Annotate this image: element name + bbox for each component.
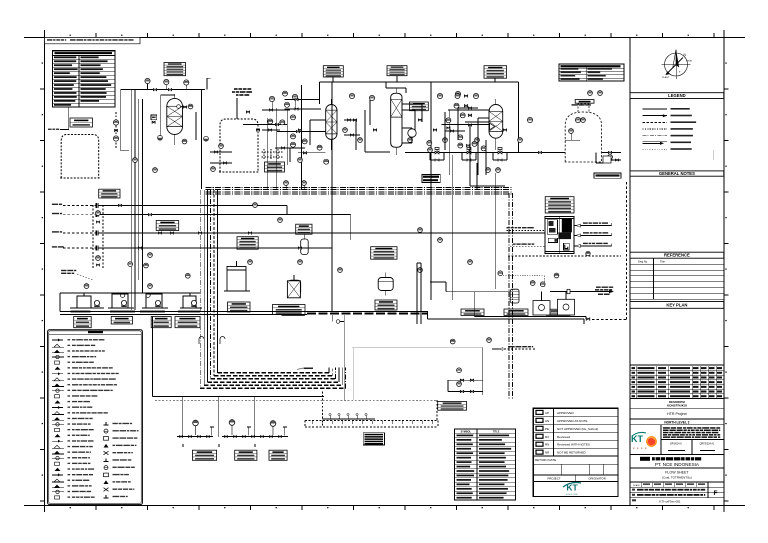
vertical pipe at 495 bbox=[494, 173, 496, 289]
instrument bubble bbox=[481, 146, 486, 151]
drain valve bbox=[225, 436, 228, 438]
future tank T-101 (dashed) bbox=[60, 135, 99, 179]
pump label P-203A/B bbox=[269, 450, 287, 460]
long vertical pipe (center) bbox=[331, 82, 333, 312]
svg-text:KEY PLAN: KEY PLAN bbox=[666, 302, 687, 307]
instrument bubble rack 1 bbox=[284, 181, 289, 186]
pump group A bbox=[70, 296, 104, 308]
instrument bubble bbox=[148, 253, 153, 258]
instrument bubble loop corner b bbox=[496, 168, 501, 173]
instrument bubble tank T-201 bbox=[219, 144, 224, 149]
piping ladder between V-201 and column bbox=[344, 100, 390, 152]
instrument bubble bbox=[280, 120, 285, 125]
equipment label box (left) bbox=[237, 237, 258, 250]
dotted signal with bubble bbox=[503, 276, 545, 288]
manifold valve 1 bbox=[460, 379, 463, 381]
svg-text:REFERENCE: REFERENCE bbox=[664, 253, 690, 258]
cluster valve bbox=[275, 123, 278, 125]
svg-text:APPROVED: APPROVED bbox=[557, 411, 575, 415]
svg-text:NORTH LEVEL 3: NORTH LEVEL 3 bbox=[664, 420, 689, 424]
bubbles in pump groups bbox=[120, 293, 150, 297]
svg-text:TRUE: TRUE bbox=[686, 61, 692, 63]
instrument bubble bbox=[278, 218, 283, 223]
svg-text:AN: AN bbox=[545, 419, 549, 423]
instrument bubble bbox=[164, 79, 169, 84]
svg-text:SCALE: SCALE bbox=[633, 484, 640, 487]
cluster valve C bbox=[447, 127, 450, 129]
heat exchanger E-203 bbox=[378, 273, 393, 296]
drain valve bbox=[207, 436, 210, 438]
drain valve bbox=[234, 436, 237, 438]
letdown station line bbox=[405, 152, 565, 154]
lower header line bundle bbox=[60, 312, 428, 324]
svg-text:RN: RN bbox=[545, 443, 549, 447]
instrument bubble bypass 1 bbox=[96, 211, 101, 216]
interlock note box bbox=[545, 197, 574, 213]
ladder valve 1 bbox=[348, 119, 351, 121]
instrument bubble bbox=[253, 203, 258, 208]
equipment label box (tank) bbox=[99, 189, 120, 198]
drain valve bbox=[279, 436, 282, 438]
dashed package outline (bottom middle) bbox=[305, 421, 438, 428]
GENERAL NOTES title bar bbox=[630, 171, 724, 176]
bottom pump group 3 bbox=[258, 426, 288, 437]
legend line samples bbox=[643, 108, 697, 150]
svg-text:F: F bbox=[714, 490, 718, 497]
utility rack bundle turns down bbox=[509, 193, 513, 400]
wire from table to note bbox=[68, 107, 70, 130]
instrument bubble (bottom manifold 2) bbox=[229, 420, 235, 435]
pump label P-103A/B bbox=[151, 317, 171, 328]
pump label P-102A/B bbox=[111, 317, 132, 325]
pump P-102 bbox=[121, 300, 126, 306]
drop valve 2 bbox=[269, 129, 272, 131]
feed line valve bbox=[198, 232, 201, 234]
dark bubble V-101 bottom bbox=[158, 135, 163, 140]
left riser to bottom pumps bbox=[153, 317, 325, 397]
instrument bubble bbox=[145, 78, 150, 83]
pump P-104 bbox=[191, 300, 196, 306]
ground bars under pump row bbox=[71, 311, 200, 313]
reference table bbox=[630, 258, 724, 299]
pipe spec table (top right) bbox=[559, 64, 624, 81]
instrument bubble manifold 3 bbox=[450, 339, 455, 344]
line symbol table bbox=[455, 429, 516, 500]
svg-text:Reviewed: Reviewed bbox=[557, 435, 571, 439]
inline valve bbox=[468, 124, 471, 126]
instrument bubble bbox=[153, 168, 158, 173]
misc vertical drop lines region B bbox=[267, 85, 301, 190]
manifold valve 3 bbox=[460, 390, 463, 392]
instrument bubble V-101 outlet bbox=[182, 139, 187, 144]
cluster valve C bbox=[464, 95, 467, 97]
instrument bubble bbox=[527, 117, 532, 122]
pump label P-104A/B bbox=[175, 317, 200, 328]
instrument bubble bbox=[458, 135, 463, 140]
labels near mid height bbox=[595, 289, 599, 291]
pipe rack bundle corner (right then up) bbox=[200, 368, 345, 389]
instrument bubble bbox=[468, 260, 473, 265]
instrument bubble above pump A bbox=[84, 284, 89, 289]
dark bubble at drop line bbox=[204, 136, 209, 141]
instrument bubble bbox=[343, 128, 348, 133]
pump discharge header bbox=[474, 292, 586, 319]
pump block A (right) bbox=[533, 292, 550, 316]
feed line valve bbox=[298, 247, 301, 249]
REFERENCE title bar bbox=[630, 252, 724, 258]
equipment data table (top left) bbox=[53, 51, 116, 107]
note box (manifold) bbox=[438, 402, 467, 411]
panel signal leads bbox=[507, 222, 612, 247]
instrument bubble (bottom manifold 3) bbox=[270, 421, 276, 435]
region B horizontals bbox=[243, 100, 326, 153]
legend right column symbols and labels bbox=[104, 422, 139, 498]
drain valve bbox=[252, 436, 255, 438]
packed vessel V-401 bbox=[489, 104, 503, 138]
instrument bubble T-401 a bbox=[569, 129, 574, 134]
up-stub flag at header end bbox=[207, 78, 211, 89]
pipe class text block bbox=[232, 88, 252, 96]
right pump station bbox=[604, 159, 621, 161]
vertical dotted drop at 322 bbox=[322, 392, 324, 428]
gate valve on header bbox=[586, 318, 590, 320]
instrument bubble bbox=[283, 91, 288, 96]
inline valve bbox=[246, 111, 249, 113]
valve cluster left of tank T-201 bbox=[210, 152, 232, 163]
manifold valve 2 bbox=[470, 379, 473, 381]
equipment label box C-301 bbox=[387, 66, 407, 76]
equipment label box (mid-left) bbox=[156, 221, 179, 231]
drop valve 1 bbox=[270, 109, 273, 111]
condensate feed line 4 bbox=[52, 246, 332, 251]
instrument bubble bbox=[285, 102, 290, 107]
instrument bubble bypass 2 bbox=[96, 256, 101, 261]
V-201 piping bbox=[310, 99, 331, 150]
filter feed line bbox=[430, 282, 510, 292]
flow element box bbox=[151, 115, 157, 120]
line to tank T-201 top bbox=[236, 98, 238, 119]
instrument bubble loop corner a bbox=[486, 168, 491, 173]
feed line valve bbox=[148, 214, 151, 216]
C-301 piping bbox=[396, 88, 415, 155]
instrument bubble bbox=[460, 113, 465, 118]
instrument bubble L7 a bbox=[588, 91, 593, 96]
instrument bubble riser b bbox=[144, 263, 149, 268]
company row - PT NCE INDONESIA bbox=[630, 455, 724, 468]
instrument bubble bbox=[349, 93, 354, 98]
line label box on header bbox=[282, 309, 305, 315]
instrument bubble bbox=[408, 138, 413, 143]
feed line valve bbox=[118, 204, 121, 206]
svg-text:NOT APPROVED (Re_Submit): NOT APPROVED (Re_Submit) bbox=[557, 427, 598, 431]
drop valve 3 bbox=[282, 147, 285, 149]
instrument bubble bbox=[473, 93, 478, 98]
instrument bubble bbox=[427, 141, 432, 146]
instrument bubble bbox=[291, 115, 296, 120]
V-401 side valve bbox=[451, 130, 454, 132]
instrument bubble T-401 bbox=[581, 118, 586, 123]
bottom manifold drops bbox=[183, 397, 255, 448]
cluster valve bbox=[296, 130, 299, 132]
future tank T-401 (dashed, domed) bbox=[565, 104, 601, 162]
inline valve bbox=[418, 119, 421, 121]
packed vessel V-101 bbox=[167, 98, 183, 134]
instrument bubble L7 b bbox=[598, 91, 603, 96]
svg-text:KTI-xxF0xx-001: KTI-xxF0xx-001 bbox=[659, 500, 681, 504]
instrument bubble bbox=[455, 94, 460, 99]
drain hooks near rack bbox=[199, 337, 225, 345]
instrument bubble PV row 1 bbox=[443, 138, 448, 143]
bottom pump group 2 bbox=[222, 426, 258, 437]
bottom pump group 1 bbox=[177, 426, 214, 437]
instrument bubble bbox=[418, 268, 423, 273]
cartridge filter F-401 bbox=[510, 289, 519, 303]
ladder piping right of column bbox=[386, 82, 422, 122]
revision table bbox=[630, 366, 724, 399]
vertical pipe pair (center low) bbox=[417, 263, 421, 324]
top header strip with drawing number bbox=[45, 37, 141, 43]
title block - north level bar bbox=[630, 419, 724, 425]
tick valve row (mid bottom) bbox=[323, 413, 376, 419]
LEGEND title bar bbox=[630, 93, 724, 99]
small label box bbox=[575, 100, 594, 104]
instrument bubble bbox=[358, 138, 363, 143]
tank inlet valve 2 bbox=[224, 162, 227, 164]
label box (mid right 2) bbox=[504, 309, 528, 315]
cluster valve bbox=[295, 108, 298, 110]
instrument bubble bbox=[518, 138, 523, 143]
bypass valve 2 bbox=[97, 264, 100, 266]
instrument bubble bbox=[248, 260, 253, 265]
equipment label box E-101 bbox=[164, 63, 186, 76]
drain valve bbox=[243, 436, 246, 438]
inline valve bbox=[608, 151, 611, 153]
instrument bubble bbox=[291, 142, 296, 147]
svg-text:NOT BE RETURNED: NOT BE RETURNED bbox=[557, 451, 586, 455]
instrument bubble bbox=[458, 143, 463, 148]
ladder valve 2 bbox=[351, 134, 354, 136]
equipment label box E-203 bbox=[371, 247, 397, 260]
svg-text:KONSTRUKSI: KONSTRUKSI bbox=[667, 404, 687, 408]
svg-text:E N G I N E: E N G I N E bbox=[566, 494, 578, 496]
svg-text:TITLE: TITLE bbox=[493, 430, 500, 433]
cluster valve C bbox=[466, 144, 469, 146]
control valve PV-3 bbox=[498, 148, 502, 154]
instrument bubble group D bbox=[185, 273, 190, 278]
instrument bubble PI bbox=[498, 271, 503, 276]
instrument bubble bbox=[298, 158, 303, 163]
symbol legend box (bottom left) bbox=[48, 330, 143, 505]
pump P-101 bbox=[94, 300, 99, 306]
instrument bubble loop b bbox=[113, 136, 118, 141]
label box (mid right) bbox=[461, 309, 484, 315]
pump group D bbox=[180, 296, 202, 308]
V-101 piping bbox=[161, 94, 196, 145]
inline valve bbox=[298, 129, 301, 131]
svg-text:PE: PE bbox=[545, 427, 549, 431]
instrument bubble manifold 2 bbox=[457, 382, 462, 387]
svg-text:Title: Title bbox=[660, 260, 665, 264]
instrument bubble bbox=[575, 117, 580, 122]
instrument bubble bbox=[369, 95, 374, 100]
instrument bubble bbox=[317, 145, 322, 150]
steam drum note text bbox=[61, 270, 93, 280]
label box stems to header bbox=[333, 76, 495, 82]
pump group C bbox=[142, 294, 168, 308]
drawing title row - FLOW SHEET bbox=[630, 468, 724, 482]
instrument bubble bbox=[418, 228, 423, 233]
drain valve bbox=[198, 436, 201, 438]
future tank T-201 (dashed) bbox=[219, 119, 259, 172]
feed valve a bbox=[159, 232, 162, 234]
instrument bubble V-101 bbox=[188, 104, 193, 109]
instrument bubble bbox=[586, 251, 590, 255]
svg-text:PT. NCE INDONESIA: PT. NCE INDONESIA bbox=[655, 462, 700, 467]
seal drain note text bbox=[572, 104, 578, 105]
instrument bubble bbox=[291, 134, 296, 139]
feed valve b bbox=[171, 232, 174, 234]
KEY PLAN title bar bbox=[630, 302, 724, 309]
instrument bubble (bottom manifold 1) bbox=[193, 420, 199, 435]
svg-text:Reviewed WITH NOTES: Reviewed WITH NOTES bbox=[557, 443, 590, 447]
dark schedule label box bbox=[422, 174, 440, 182]
drain valve bbox=[180, 436, 183, 438]
long vertical at 431 bbox=[430, 82, 432, 300]
instrument bubble flare 3 bbox=[554, 273, 559, 278]
instrument bubble tank T-201 b bbox=[211, 167, 216, 172]
inline valve bbox=[168, 89, 171, 91]
feed line valve bbox=[248, 232, 251, 234]
equipment label (deaerator) bbox=[228, 302, 251, 312]
instrument bubble bbox=[428, 148, 433, 153]
dashed bypass loop (left) bbox=[93, 205, 103, 268]
line continues right with valve bbox=[428, 318, 627, 324]
drain valve bbox=[189, 436, 192, 438]
packed vessel V-201 bbox=[326, 105, 337, 140]
title block bottom grid bbox=[630, 482, 724, 506]
svg-text:EPS/024 A: EPS/024 A bbox=[670, 443, 682, 446]
dashed interlock line (right) bbox=[508, 255, 621, 257]
label under exchanger bbox=[375, 300, 397, 310]
flare line with arrow bbox=[550, 287, 614, 294]
line number tag NW bbox=[297, 368, 313, 370]
equipment label box R-201 bbox=[323, 66, 343, 77]
loop valve bbox=[115, 129, 118, 131]
lines near T-401 bbox=[545, 152, 621, 154]
dashed instrument loop near table bbox=[115, 112, 117, 148]
pump P-103 bbox=[155, 300, 160, 306]
dotted future line left extension bbox=[155, 399, 323, 401]
svg-text:SYMBOL: SYMBOL bbox=[461, 430, 472, 433]
cluster valve bbox=[303, 152, 306, 154]
nozzle triangle into V-401 bbox=[490, 123, 495, 130]
svg-text:AP: AP bbox=[545, 411, 549, 415]
inline valve bbox=[353, 119, 356, 121]
svg-text:ORIGINATOR: ORIGINATOR bbox=[588, 477, 605, 481]
instrument bubble bbox=[302, 139, 307, 144]
legend left column symbols and labels bbox=[52, 339, 119, 500]
pipe rack vertical bundle (left) bbox=[200, 190, 217, 388]
blowdown manifold bbox=[448, 348, 483, 396]
loop corner lines above rack bbox=[470, 160, 505, 190]
control panel with black display bbox=[545, 216, 574, 253]
feed line valve bbox=[138, 247, 141, 249]
equipment label box R-401 bbox=[484, 66, 507, 79]
system inlet label bbox=[48, 129, 52, 130]
instrument bubble manifold 4 bbox=[487, 338, 492, 343]
instrument bubble bbox=[184, 80, 189, 85]
small drum with cross V-205 bbox=[287, 275, 300, 298]
instrument bubble bbox=[268, 119, 273, 124]
column C-301 bbox=[391, 93, 402, 147]
inline valve bbox=[153, 89, 156, 91]
V-401 inlet valve bbox=[469, 107, 472, 109]
instrument bubble bbox=[338, 268, 343, 273]
manifold valve 4 bbox=[470, 390, 473, 392]
dotted future line (long horizontal) bbox=[323, 400, 438, 420]
KT logo cell with orange sun bbox=[630, 425, 724, 455]
instrument bubble bbox=[438, 238, 443, 243]
pump block B (right) bbox=[558, 292, 575, 316]
battery limit dashed vertical bbox=[626, 182, 628, 320]
cluster valve C bbox=[464, 105, 467, 107]
steam feed line 1 bbox=[52, 203, 287, 215]
key plan empty box bbox=[630, 308, 724, 365]
instrument bubble manifold 1 bbox=[457, 368, 462, 373]
approval stamp table bbox=[533, 408, 618, 496]
equipment label box V-204 bbox=[296, 224, 312, 234]
inline valve bbox=[373, 129, 376, 131]
instrument bubble rack 2 bbox=[302, 181, 307, 186]
note box bbox=[70, 118, 93, 127]
instrument bubble bbox=[324, 159, 329, 164]
long vertical pipes (left pair) bbox=[131, 90, 142, 310]
instrument bubble flare 2 bbox=[540, 282, 545, 287]
drop lines from top header into vessels bbox=[262, 110, 305, 162]
steam feed line 2 bbox=[52, 212, 351, 240]
instrument bubble bbox=[454, 103, 459, 108]
pump (right edge) bbox=[608, 155, 613, 161]
long vertical pipe (center-right) bbox=[452, 155, 454, 300]
main header line (top left) bbox=[121, 89, 205, 91]
inline valve bbox=[503, 129, 506, 131]
pump label P-101A/B bbox=[74, 317, 92, 328]
instrument bubble flare 1 bbox=[530, 281, 535, 286]
valve (right edge) bbox=[616, 159, 619, 161]
inline valve bbox=[538, 151, 541, 153]
pump label P-202A/B bbox=[235, 450, 257, 460]
small vessel V-204 bbox=[301, 234, 309, 255]
instrument bubble bbox=[455, 91, 460, 96]
FE valve bbox=[152, 121, 155, 123]
right panel outer border bbox=[630, 37, 724, 505]
instrument bubble bbox=[446, 118, 451, 123]
pump station right edge bbox=[596, 153, 621, 164]
instrument bubble bbox=[292, 94, 297, 99]
ruler tick marks top/bottom/left/right bbox=[40, 33, 728, 510]
svg-text:PLANT: PLANT bbox=[662, 76, 670, 79]
manway on V-101 bbox=[177, 105, 181, 109]
piping left of V-401 bbox=[445, 108, 489, 150]
equipment label box E-302 bbox=[410, 102, 429, 111]
instrument bubble PV row 2 bbox=[475, 138, 480, 143]
pump group B bbox=[108, 294, 134, 308]
svg-text:Dwg No: Dwg No bbox=[638, 260, 648, 264]
small drum V-205 bbox=[288, 280, 301, 295]
svg-text:GENERAL NOTES: GENERAL NOTES bbox=[659, 171, 695, 176]
cluster valve bbox=[295, 98, 298, 100]
title block - description row bbox=[630, 399, 724, 409]
